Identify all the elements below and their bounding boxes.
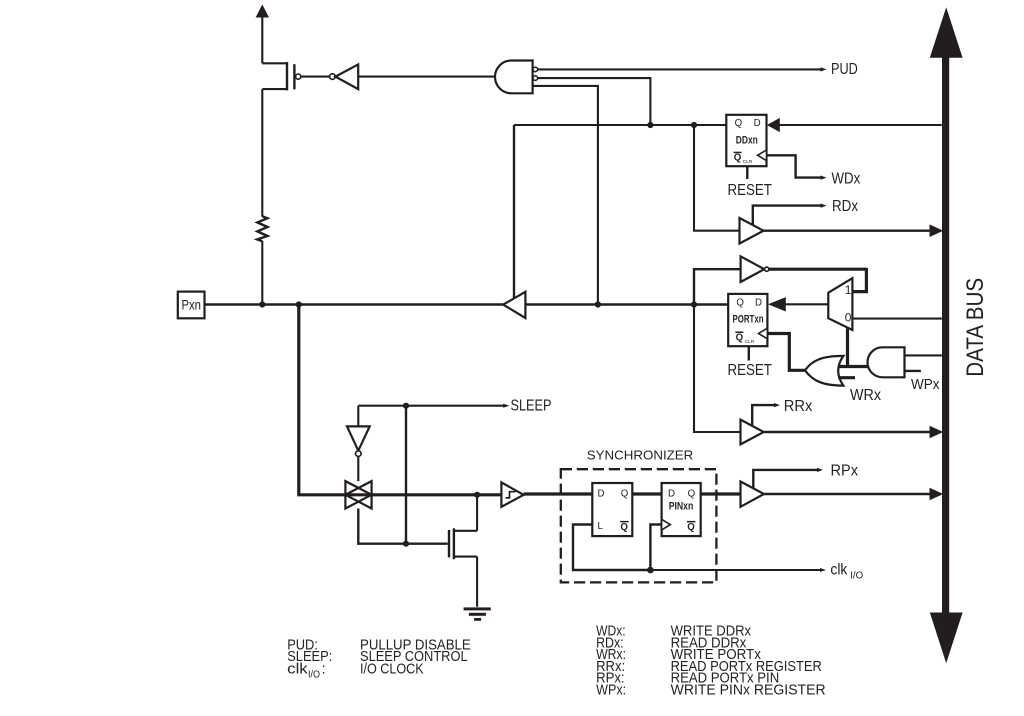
svg-text::: : <box>322 660 326 677</box>
transmission gate (sleep isolation) <box>345 481 371 508</box>
wire sleep input path from pin <box>299 305 502 495</box>
svg-text:D: D <box>755 298 762 309</box>
wire WRx stub <box>838 376 855 379</box>
legend PUD <box>287 636 471 653</box>
mux (WPx select) <box>828 278 852 330</box>
svg-text:Q: Q <box>734 153 742 164</box>
node PORTxn Q junction (feedback) <box>691 301 697 307</box>
inverter (sleep control) <box>347 426 370 481</box>
wire DDxn Q line <box>514 125 726 298</box>
wire RPx label <box>753 468 823 488</box>
legend RDx <box>596 634 747 651</box>
wire PORTxn Q to feedback inverter <box>694 269 741 304</box>
wire mux select <box>846 329 849 369</box>
svg-text:D: D <box>598 488 605 499</box>
wire schmitt to latch <box>524 492 593 495</box>
D flip-flop PORTxn <box>728 294 767 346</box>
svg-text:PUD: PUD <box>831 61 858 78</box>
wire AND out / select net <box>838 365 869 368</box>
wire clk I/O <box>650 568 826 572</box>
tri-state buffer RPx <box>741 482 765 507</box>
synchronizer dashed box <box>561 469 717 582</box>
svg-text:I/O: I/O <box>850 569 863 581</box>
svg-text:Q: Q <box>736 298 744 309</box>
svg-text:D: D <box>668 488 675 499</box>
wire mux input 0 from DATA BUS <box>852 318 941 320</box>
ground <box>464 607 491 620</box>
legend SLEEP <box>287 648 467 665</box>
OR gate (WRx + toggle clock) <box>805 356 843 386</box>
wire RDx label <box>753 204 827 226</box>
svg-text:DDxn: DDxn <box>736 134 758 146</box>
VCC arrow <box>256 5 269 64</box>
wire SLEEP net <box>358 404 509 544</box>
wire WPx stub <box>905 370 921 372</box>
node DDxn Q junction 1 <box>647 122 653 128</box>
schmitt trigger buffer <box>501 482 523 506</box>
wire DATA BUS to DDxn D <box>767 118 942 132</box>
svg-text:DATA BUS: DATA BUS <box>962 278 989 377</box>
legend RRx <box>596 658 822 675</box>
wire PORTxn Q to RRx buffer <box>694 305 741 433</box>
D flip-flop PINxn <box>662 483 701 536</box>
svg-text:I/O CLOCK: I/O CLOCK <box>360 660 424 677</box>
transistor NMOS (sleep pull-down) <box>449 495 477 607</box>
wire RRx label <box>752 403 780 426</box>
node pin-input junction <box>296 301 302 307</box>
svg-text:WPx:: WPx: <box>596 681 626 698</box>
wire NAND input 2 to DDxn Q <box>538 78 651 125</box>
svg-text:PORTxn: PORTxn <box>733 314 764 326</box>
node SLEEP tee <box>403 403 409 409</box>
legend clk I/O <box>287 660 423 680</box>
svg-text:0: 0 <box>845 310 852 324</box>
wire RDx to DATA BUS <box>764 224 944 237</box>
wire clk to PINxn clock <box>650 525 661 571</box>
node NMOS drain tee <box>474 492 480 498</box>
tri-state buffer RDx <box>740 218 764 244</box>
wire OR out to PORTxn clock <box>767 334 806 371</box>
legend WPx <box>596 681 826 698</box>
AND gate (WPx qualifier) <box>868 347 905 377</box>
legend RPx <box>596 670 779 687</box>
wire NAND input 3 to PORTxn Q <box>533 86 598 305</box>
svg-text:RESET: RESET <box>728 182 773 199</box>
wire PUD <box>538 67 827 71</box>
svg-text:Q: Q <box>621 488 629 499</box>
svg-text:I/O: I/O <box>308 668 320 680</box>
D flip-flop DDxn <box>726 115 766 166</box>
svg-text:Q: Q <box>620 522 628 533</box>
svg-text:Q: Q <box>688 488 696 499</box>
wire mux out to PORTxn D <box>768 297 828 311</box>
wire RRx to DATA BUS <box>764 426 944 439</box>
node pin-pullup junction <box>259 301 265 307</box>
svg-text:WPx: WPx <box>911 376 940 393</box>
svg-text:Q: Q <box>736 332 744 343</box>
svg-text:CLR: CLR <box>743 159 753 165</box>
wire Pxn pin net <box>205 303 729 305</box>
svg-text:CLR: CLR <box>745 339 755 345</box>
wire RESET (PORTxn CLR) <box>748 346 750 360</box>
wire RESET (DDxn CLR) <box>746 166 748 179</box>
svg-text:RPx: RPx <box>831 462 859 479</box>
wire PINxn Q to RPx buffer <box>701 492 741 495</box>
node PORTxn Q junction (NAND) <box>595 301 601 307</box>
wire latch1 L enable <box>573 525 650 571</box>
legend WDx <box>596 623 751 640</box>
svg-text:RESET: RESET <box>728 362 773 379</box>
svg-text:SLEEP: SLEEP <box>511 398 552 415</box>
wire feedback to mux input 1 <box>769 268 866 292</box>
wire bowtie gate to NMOS gate <box>358 509 447 544</box>
DATA BUS <box>930 7 963 663</box>
tri-state buffer RRx <box>741 420 764 445</box>
wire DDxn Q to read buffer <box>694 125 740 231</box>
wire AND input from DATA BUS <box>905 354 942 356</box>
svg-text:clk: clk <box>830 562 848 579</box>
svg-text:L: L <box>598 521 604 532</box>
svg-text:RDx: RDx <box>832 198 858 215</box>
node NMOS gate tee <box>403 541 409 547</box>
wire latch1 Q to PINxn D <box>632 492 661 495</box>
svg-text:Q: Q <box>735 118 743 129</box>
D latch 1 <box>592 483 632 536</box>
svg-text:SYNCHRONIZER: SYNCHRONIZER <box>587 449 694 463</box>
svg-text:RRx: RRx <box>784 398 813 415</box>
svg-text:Q: Q <box>687 522 695 533</box>
inverter U1 (pull-up control) <box>301 64 496 89</box>
svg-text:clk: clk <box>287 660 308 677</box>
node DDxn Q junction 2 <box>691 122 697 128</box>
svg-text:WRx: WRx <box>850 387 881 404</box>
svg-text:WDx: WDx <box>832 170 861 187</box>
svg-text:D: D <box>754 118 761 129</box>
node clk tee <box>647 567 654 574</box>
wire WDx clock <box>767 155 827 179</box>
wire RPx to DATA BUS <box>764 488 943 501</box>
transistor pull-up PMOS <box>262 62 301 217</box>
inverting buffer (PINx toggle feedback) <box>741 256 769 282</box>
Pxn pad box <box>178 292 205 319</box>
svg-text:1: 1 <box>845 283 852 297</box>
svg-text:Pxn: Pxn <box>181 297 201 313</box>
svg-text:PINxn: PINxn <box>669 501 694 513</box>
output driver buffer (tri-state) <box>503 292 525 318</box>
svg-text:WRITE PINx REGISTER: WRITE PINx REGISTER <box>671 681 826 698</box>
NAND gate (pull-up enable, mirrored AND) <box>495 61 538 94</box>
legend WRx <box>596 646 761 663</box>
resistor pull-up <box>257 216 267 304</box>
